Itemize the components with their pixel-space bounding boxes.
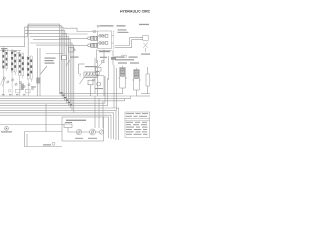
svg-text:HYDRAULIC CIRCUIT DIAGRAM: HYDRAULIC CIRCUIT DIAGRAM bbox=[120, 10, 150, 14]
